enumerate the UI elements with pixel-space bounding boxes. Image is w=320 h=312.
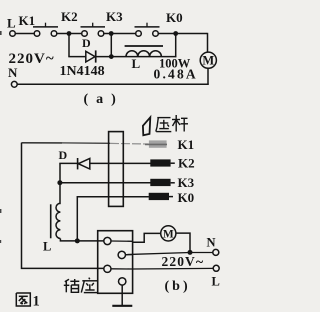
svg-text:N: N	[8, 65, 18, 80]
svg-text:1N4148: 1N4148	[60, 64, 105, 79]
svg-text:K2: K2	[61, 9, 78, 24]
socket hole 3	[104, 265, 133, 272]
switch K1	[19, 13, 59, 36]
socket ground stand	[112, 285, 132, 306]
inductor L (b) vertical coil	[43, 203, 60, 253]
wire L to K1	[15, 33, 34, 35]
svg-text:K0: K0	[166, 10, 183, 25]
svg-text:(b): (b)	[165, 279, 191, 294]
motor M (a)	[200, 52, 216, 68]
svg-text:D: D	[59, 148, 68, 162]
svg-text:K3: K3	[178, 175, 195, 190]
svg-text:L: L	[7, 16, 16, 31]
label 压杆 (hand-drawn glyphs)	[156, 115, 188, 132]
node G junction dot	[188, 250, 193, 255]
wire corner down to motor	[207, 33, 209, 53]
wire coil bottom to socket	[60, 239, 104, 241]
svg-text:L: L	[212, 275, 220, 289]
contact K1 (faded box)	[145, 137, 194, 152]
svg-text:N: N	[207, 236, 216, 250]
wire node A down	[68, 34, 70, 57]
node C junction dot, label K0	[166, 10, 183, 36]
motor M (b)	[161, 226, 176, 241]
svg-text:K1: K1	[19, 13, 36, 28]
bottom rail N wire	[17, 83, 209, 85]
switch K3	[106, 9, 160, 36]
socket hole 1	[104, 237, 133, 244]
wire motor to N line	[176, 233, 190, 252]
wire K3 to corner	[158, 33, 207, 35]
socket box 插座	[98, 231, 133, 294]
terminal L (b)	[212, 265, 220, 288]
wire K0 line	[77, 197, 149, 241]
svg-text:M: M	[202, 54, 214, 68]
svg-text:220V~: 220V~	[9, 51, 55, 67]
socket hole 4	[119, 278, 126, 285]
contact K0 (black box)	[149, 190, 194, 205]
wire node C down to lower branch	[175, 34, 177, 58]
contact K2 (black box)	[150, 156, 194, 171]
lever knob icon	[143, 117, 150, 135]
wire K1 line	[22, 142, 63, 144]
wire K2/diode line	[59, 162, 150, 164]
terminal N (a)	[8, 65, 18, 87]
node B junction dot	[109, 31, 114, 36]
switch K2	[61, 9, 105, 36]
N line wire (b)	[126, 253, 213, 255]
wire motor to bottom rail	[207, 68, 209, 85]
svg-text:D: D	[82, 36, 91, 50]
node F junction dot	[75, 238, 80, 243]
contact K3 (black box)	[150, 175, 194, 190]
press lever bar rectangle	[109, 132, 124, 207]
terminal L (a)	[7, 16, 16, 37]
wire K1 to K2	[57, 33, 82, 35]
svg-text:K2: K2	[178, 156, 195, 171]
svg-text:M: M	[163, 229, 174, 241]
socket hole 2	[118, 251, 133, 258]
svg-text:0.48A: 0.48A	[154, 67, 198, 82]
lower branch wire	[68, 56, 176, 58]
left border wire (b)	[22, 143, 105, 269]
scan specks at left edge	[0, 31, 2, 243]
svg-text:220V~: 220V~	[162, 254, 205, 270]
label 100W 0.48A	[154, 57, 198, 82]
diode D (a)	[82, 36, 96, 63]
svg-text:K0: K0	[178, 190, 195, 205]
label 插座 (hand-drawn glyphs)	[64, 278, 98, 293]
wire K2 to K3	[104, 33, 136, 35]
wire K1 line mid	[62, 142, 110, 144]
svg-text:1: 1	[33, 294, 40, 310]
svg-text:K3: K3	[106, 9, 123, 24]
node D junction dot on lower branch	[109, 54, 114, 59]
wire K1 line faded	[110, 142, 149, 145]
inductor L (a)	[125, 46, 163, 71]
diode D (b)	[59, 148, 90, 170]
terminal N (b)	[207, 236, 219, 256]
wire K3 line	[60, 182, 151, 184]
svg-text:(a): (a)	[84, 92, 124, 107]
node E junction dot	[57, 180, 62, 185]
wire socket to motor	[133, 233, 161, 242]
caption 图1 (hand-drawn glyph + numeral)	[16, 293, 39, 310]
wire node B to node D	[110, 34, 112, 57]
node A junction dot	[67, 31, 72, 36]
svg-text:K1: K1	[178, 137, 195, 152]
L line wire (b)	[133, 267, 214, 270]
svg-text:L: L	[43, 240, 51, 254]
wire diode corner down to coil	[59, 163, 61, 204]
svg-text:L: L	[132, 56, 141, 71]
